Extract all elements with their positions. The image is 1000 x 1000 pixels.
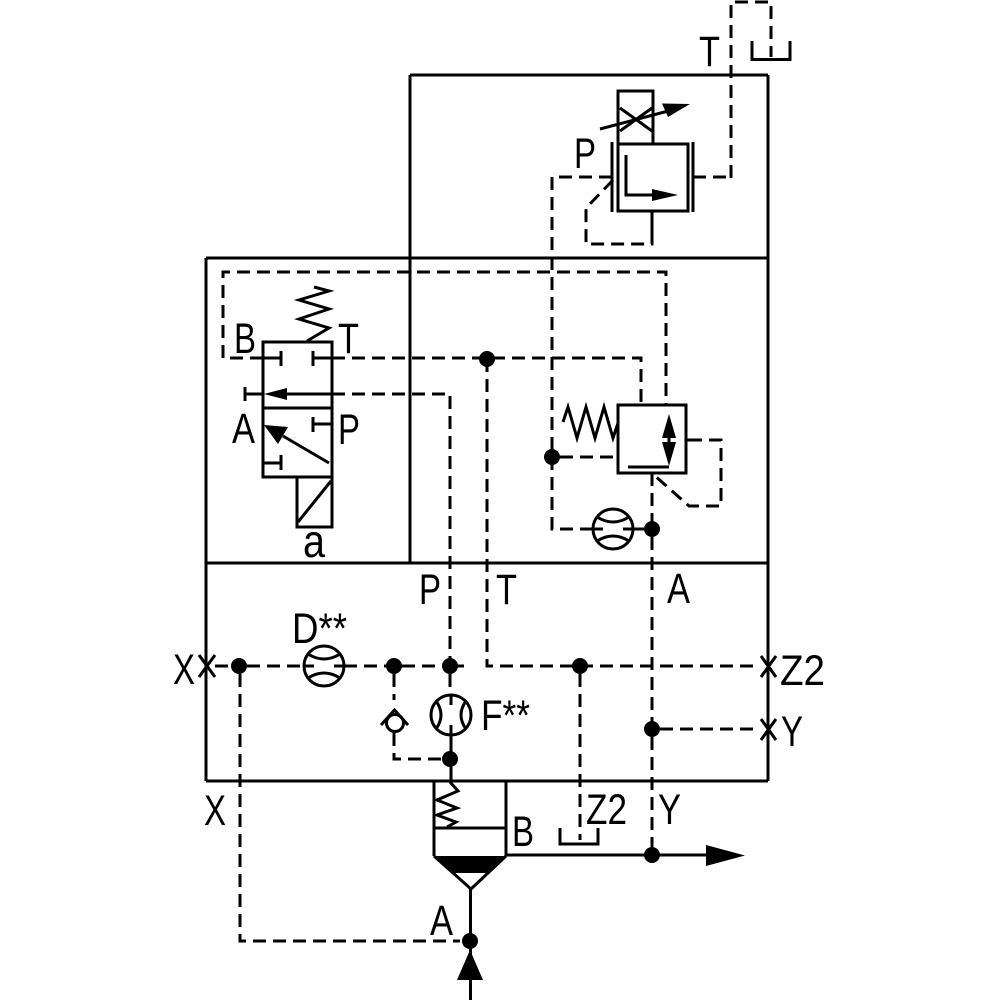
wire dashed Z2 drop to tank <box>579 674 582 840</box>
spring of V1 <box>299 287 329 341</box>
node junction dot A pilot top <box>644 521 660 537</box>
orifice pilot internal arcs <box>594 517 632 541</box>
wire A line <box>469 889 472 1000</box>
tank symbol Z2 <box>559 828 600 844</box>
svg-text:X: X <box>173 646 195 694</box>
V1 crossover arrowhead <box>264 425 288 444</box>
svg-text:A: A <box>667 565 690 613</box>
wire dashed B pilot loop <box>223 272 666 405</box>
U4 poppet seat outline <box>434 856 506 889</box>
wire dashed U3 right pilot loop <box>654 440 721 506</box>
V1 position divider <box>263 407 332 410</box>
wire dashed U3 bottom port <box>651 473 654 521</box>
wire dashed down to orifice F <box>449 674 452 694</box>
svg-text:A: A <box>430 897 453 945</box>
svg-text:T: T <box>496 566 517 614</box>
pressure reducing pilot valve U2 body <box>618 144 688 211</box>
node junction dot on A line <box>462 933 478 949</box>
V1 crossover arrow shaft <box>283 436 329 463</box>
wire dashed drain line to tank T <box>731 2 771 178</box>
pressure reducing pilot valve U2 adjuster box <box>618 91 653 144</box>
A line arrowhead up <box>457 950 483 980</box>
svg-text:Z2: Z2 <box>780 647 825 695</box>
svg-text:Z2: Z2 <box>586 786 627 834</box>
solenoid a diagonal <box>298 481 331 522</box>
orifice D <box>304 646 344 686</box>
orifice (pilot nozzle) <box>593 509 633 549</box>
adjuster cross <box>620 108 652 131</box>
pin rail right of U2 <box>692 142 695 212</box>
wire U2 drain stem <box>651 211 654 235</box>
svg-text:P: P <box>338 406 360 454</box>
solenoid directional valve V1 body <box>263 342 332 477</box>
node junction dot F branch <box>442 658 458 674</box>
check valve seat <box>381 710 408 725</box>
pin blocked port B of V1 <box>263 351 281 366</box>
wire dashed to U3 spring chamber <box>560 456 618 459</box>
port Y cross <box>761 719 776 740</box>
V1 flow path arrow shaft <box>285 393 332 396</box>
wire orifice F to spring chamber <box>450 735 453 781</box>
svg-text:F**: F** <box>481 692 530 740</box>
wire dashed down to check valve <box>393 674 396 700</box>
wire dashed P riser to orifice <box>552 457 593 529</box>
wire dashed P pilot line left and riser down <box>552 177 612 457</box>
svg-text:Y: Y <box>658 786 681 834</box>
adjuster arrowhead <box>662 104 690 118</box>
pin rail left of U2 <box>611 142 614 212</box>
svg-text:B: B <box>512 808 534 856</box>
pin blocked port P of V1 <box>313 417 332 432</box>
node junction dot check valve branch <box>386 658 402 674</box>
svg-text:P: P <box>574 130 596 178</box>
B line arrowhead <box>706 845 745 866</box>
U2 internal flow path <box>626 155 656 195</box>
cartridge valve U4 body <box>434 781 506 856</box>
spring of U4 <box>437 782 458 827</box>
wire dashed Y port line <box>660 728 759 731</box>
wire dashed below check valve <box>394 733 442 759</box>
U3 poppet arrow shaft <box>668 430 671 455</box>
pin blocked stub bottom left of V1 <box>263 455 281 470</box>
wire dashed orifice D to check valve node <box>344 665 386 668</box>
wire dashed U2 to T riser <box>693 176 731 179</box>
orifice D internal arcs <box>305 654 343 678</box>
wire dashed pilot from V1 port A <box>332 394 450 666</box>
wire dashed X drop to A line <box>240 674 460 941</box>
V1 flow path arrowhead <box>264 388 287 400</box>
svg-text:D**: D** <box>292 605 347 653</box>
svg-text:A: A <box>232 405 255 453</box>
orifice F <box>431 695 471 735</box>
svg-text:B: B <box>234 315 256 363</box>
svg-text:P: P <box>419 566 441 614</box>
adjuster arrow shaft <box>600 110 672 129</box>
svg-text:Y: Y <box>781 708 803 756</box>
wire dashed to F branch node <box>402 665 442 668</box>
U4 poppet fill <box>434 856 506 873</box>
U2 internal flow arrowhead <box>652 189 678 201</box>
solenoid a box <box>297 477 332 527</box>
pressure compensator valve U3 body <box>618 405 686 473</box>
wire U3 right port stub <box>686 439 702 442</box>
wire dashed U2 drain loop <box>586 180 652 244</box>
node junction dot on B line <box>644 847 660 863</box>
housing outline (control cover blocks) <box>206 75 768 781</box>
svg-text:T: T <box>699 28 720 76</box>
check valve ball <box>387 715 404 732</box>
port Z2 cross <box>761 656 776 677</box>
U3 poppet arrowhead up <box>662 414 676 438</box>
wire short dash right of node <box>457 665 464 668</box>
wire B line out <box>506 854 706 857</box>
wire dashed X line to orifice D <box>247 665 304 668</box>
node junction dot X line <box>231 658 247 674</box>
U3 poppet arrowhead down <box>662 442 676 466</box>
orifice F internal arcs <box>436 696 466 734</box>
spring of U3 <box>563 407 618 438</box>
U3 seat line <box>628 466 669 469</box>
wire dashed orifice to A pilot <box>633 528 644 531</box>
tank symbol T <box>751 41 792 60</box>
node junction dot below F <box>442 751 458 767</box>
wire dashed T pilot line <box>332 358 641 405</box>
node junction dot Y line <box>644 721 660 737</box>
wire dashed A pilot line down <box>651 537 654 847</box>
pin stub outside left of V1 <box>245 387 263 401</box>
svg-text:a: a <box>303 515 325 567</box>
port X cross <box>199 655 215 677</box>
wire dashed X port line <box>215 665 231 668</box>
svg-text:X: X <box>204 787 226 835</box>
node junction dot spring side <box>544 449 560 465</box>
wire dashed Z2 branch riser <box>487 359 759 666</box>
svg-text:T: T <box>338 315 359 363</box>
node junction dot Z2 line <box>572 658 588 674</box>
pin blocked port T of V1 <box>313 351 332 366</box>
node junction dot on T pilot line <box>479 351 495 367</box>
